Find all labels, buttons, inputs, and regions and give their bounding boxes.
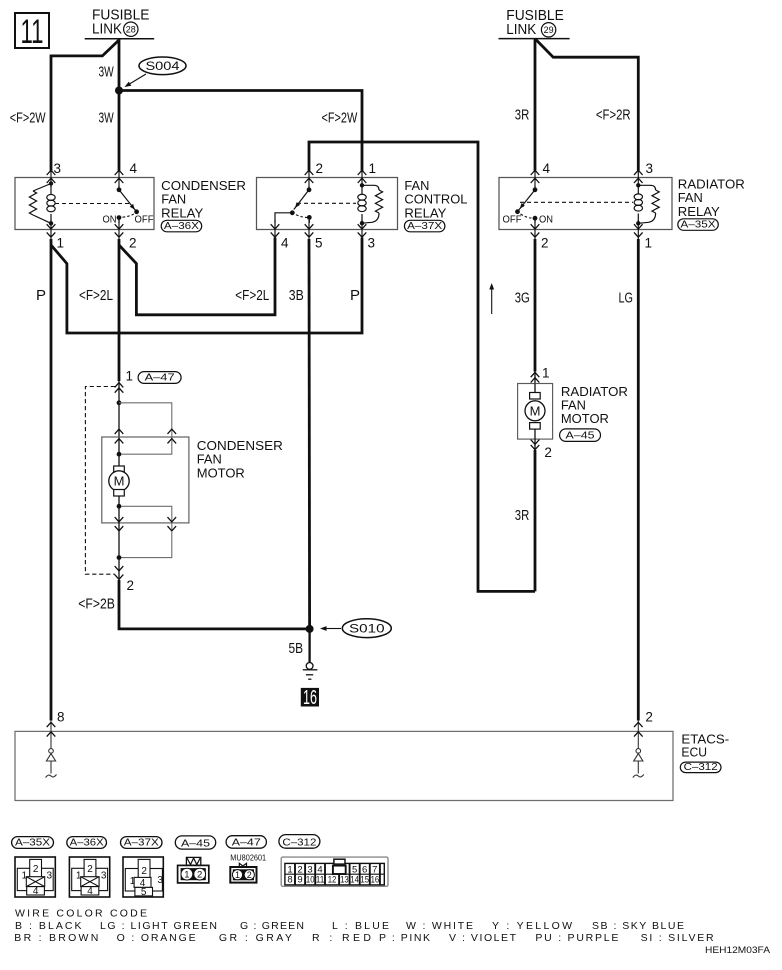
svg-text:2: 2 — [127, 578, 135, 593]
svg-text:2: 2 — [645, 710, 653, 725]
svg-text:5B: 5B — [289, 640, 304, 657]
svg-text:<F>2W: <F>2W — [322, 109, 358, 126]
svg-text:12: 12 — [328, 875, 337, 886]
svg-text:WIRE COLOR CODE: WIRE COLOR CODE — [15, 908, 147, 920]
svg-text:1: 1 — [126, 369, 134, 384]
svg-text:1: 1 — [542, 365, 550, 380]
svg-text:2: 2 — [141, 866, 147, 877]
svg-text:15: 15 — [360, 875, 369, 886]
svg-text:1: 1 — [369, 161, 377, 176]
svg-text:HEH12M03FA: HEH12M03FA — [705, 945, 771, 956]
svg-text:4: 4 — [130, 161, 138, 176]
svg-text:M: M — [114, 474, 125, 489]
svg-text:C–312: C–312 — [282, 836, 316, 848]
svg-text:1: 1 — [235, 870, 240, 880]
svg-text:3: 3 — [646, 161, 654, 176]
svg-text:4: 4 — [87, 886, 93, 897]
svg-text:A–37X: A–37X — [124, 837, 159, 849]
svg-text:16: 16 — [371, 875, 380, 886]
svg-text:P : PINK: P : PINK — [379, 932, 430, 944]
svg-text:<F>2L: <F>2L — [79, 287, 113, 304]
svg-text:MU802601: MU802601 — [230, 853, 266, 862]
svg-text:4: 4 — [33, 886, 39, 897]
svg-text:2: 2 — [33, 864, 39, 875]
svg-text:RELAY: RELAY — [404, 205, 446, 220]
svg-text:A–47: A–47 — [145, 372, 175, 384]
svg-text:14: 14 — [350, 875, 359, 886]
svg-text:S004: S004 — [145, 59, 179, 73]
svg-text:3G: 3G — [515, 290, 530, 307]
svg-text:11: 11 — [316, 875, 325, 886]
svg-text:A–35X: A–35X — [15, 837, 50, 849]
svg-text:A–45: A–45 — [181, 837, 210, 849]
svg-text:OFF: OFF — [135, 214, 154, 226]
svg-text:ON: ON — [103, 214, 117, 226]
svg-text:3: 3 — [368, 236, 376, 251]
svg-text:B : BLACK: B : BLACK — [15, 920, 82, 932]
svg-text:5: 5 — [141, 887, 147, 898]
svg-text:RELAY: RELAY — [161, 205, 203, 220]
svg-text:<F>2R: <F>2R — [596, 107, 631, 124]
svg-text:ON: ON — [539, 214, 553, 226]
svg-text:3: 3 — [157, 875, 163, 886]
svg-text:2: 2 — [541, 236, 549, 251]
svg-text:C–312: C–312 — [684, 761, 718, 773]
svg-text:2: 2 — [129, 236, 137, 251]
svg-text:RELAY: RELAY — [678, 204, 720, 219]
svg-text:S010: S010 — [349, 622, 385, 636]
svg-text:16: 16 — [303, 687, 317, 709]
svg-text:PU : PURPLE: PU : PURPLE — [535, 932, 618, 944]
svg-text:11: 11 — [21, 13, 44, 51]
svg-text:9: 9 — [297, 875, 302, 886]
svg-text:4: 4 — [281, 236, 289, 251]
svg-text:8: 8 — [287, 875, 292, 886]
svg-text:G : GREEN: G : GREEN — [240, 920, 304, 932]
svg-text:A–35X: A–35X — [681, 219, 716, 231]
svg-text:3: 3 — [101, 871, 107, 882]
svg-text:M: M — [530, 403, 541, 418]
svg-text:3R: 3R — [515, 507, 530, 524]
svg-text:1: 1 — [184, 870, 189, 881]
svg-text:3: 3 — [47, 871, 53, 882]
svg-text:LINK: LINK — [506, 21, 536, 38]
svg-text:4: 4 — [543, 161, 551, 176]
svg-text:<F>2B: <F>2B — [78, 596, 115, 613]
svg-text:<F>2W: <F>2W — [10, 109, 46, 126]
svg-text:1: 1 — [57, 236, 65, 251]
svg-text:3W: 3W — [99, 64, 115, 81]
svg-text:2: 2 — [316, 161, 324, 176]
svg-text:ECU: ECU — [681, 745, 707, 759]
svg-text:O : ORANGE: O : ORANGE — [117, 932, 196, 944]
svg-text:<F>2L: <F>2L — [235, 287, 269, 304]
svg-text:1: 1 — [645, 236, 653, 251]
svg-text:SI : SILVER: SI : SILVER — [641, 932, 714, 944]
svg-text:5: 5 — [315, 236, 323, 251]
svg-text:MOTOR: MOTOR — [561, 411, 609, 426]
svg-text:2: 2 — [197, 870, 202, 881]
svg-text:13: 13 — [340, 875, 349, 886]
svg-text:LINK: LINK — [92, 21, 122, 38]
svg-text:A–47: A–47 — [232, 836, 261, 848]
svg-text:28: 28 — [126, 24, 136, 34]
svg-text:29: 29 — [544, 25, 554, 35]
svg-text:A–45: A–45 — [566, 430, 595, 442]
svg-text:A–36X: A–36X — [70, 837, 104, 849]
svg-text:A–36X: A–36X — [164, 220, 199, 232]
svg-text:LG: LG — [619, 290, 634, 307]
svg-text:3B: 3B — [289, 287, 304, 304]
svg-text:3R: 3R — [515, 107, 530, 124]
svg-text:8: 8 — [57, 710, 65, 725]
svg-text:OFF: OFF — [503, 214, 522, 226]
svg-text:A–37X: A–37X — [407, 220, 442, 232]
svg-text:P: P — [36, 287, 46, 304]
svg-text:3W: 3W — [99, 109, 115, 126]
svg-text:2: 2 — [87, 864, 93, 875]
svg-text:10: 10 — [306, 875, 315, 886]
svg-text:2: 2 — [544, 445, 552, 460]
svg-text:P: P — [350, 287, 360, 304]
svg-text:GR : GRAY: GR : GRAY — [219, 932, 292, 944]
svg-text:MOTOR: MOTOR — [197, 465, 245, 480]
svg-text:2: 2 — [247, 870, 252, 880]
